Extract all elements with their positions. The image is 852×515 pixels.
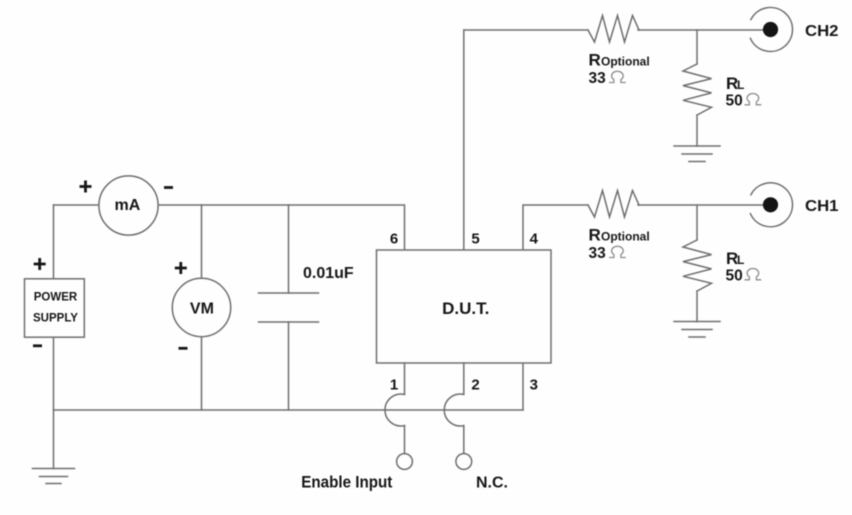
svg-text:33: 33 [589, 245, 607, 262]
svg-text:Optional: Optional [601, 229, 650, 243]
ohm symbol for 50 ohm CH2 [745, 94, 762, 105]
ohm symbol for 50 ohm CH1 [745, 269, 762, 280]
minus sign: power supply [33, 344, 42, 347]
wire: VM branch vertical (top wire to VM, VM to bottom wire) [201, 205, 203, 410]
svg-text:33: 33 [589, 70, 607, 87]
svg-text:Optional: Optional [601, 54, 650, 68]
svg-text:2: 2 [471, 376, 479, 393]
svg-text:3: 3 [530, 376, 538, 393]
svg-text:N.C.: N.C. [476, 475, 508, 492]
wire: mA right to pin6 corner, down to DUT pin 6 [158, 205, 405, 250]
wire: pin1 hop to enable input terminal [404, 426, 406, 454]
svg-text:Enable Input: Enable Input [301, 474, 392, 492]
terminal circle: N.C. [456, 454, 472, 470]
resistor RL CH1 (50 ohm) vertical zigzag [683, 240, 712, 291]
wire: capacitor branch vertical [288, 205, 290, 410]
svg-text:5: 5 [471, 231, 479, 248]
ohm symbol for 33 ohm CH2 [609, 71, 626, 82]
plus sign: power supply [34, 258, 46, 270]
svg-text:4: 4 [530, 231, 539, 248]
wire: left rail (top wire down to power supply, power supply to ground) [53, 205, 55, 469]
svg-text:6: 6 [390, 231, 398, 248]
svg-text:L: L [737, 78, 744, 92]
voltmeter VM circle [172, 278, 230, 336]
D.U.T. box [377, 250, 552, 363]
wire: pin2 hop to N.C. terminal [463, 426, 465, 454]
svg-text:R: R [589, 225, 601, 244]
ground symbol: RL CH2 [674, 146, 720, 162]
wire: pin1 down from DUT to hop [404, 363, 406, 394]
plus sign: VM [175, 262, 187, 274]
wire: pin4 vertical and CH1 line to R optional [523, 205, 588, 250]
wire: CH2 top line, pin5 corner to R optional [464, 29, 588, 31]
svg-text:SUPPLY: SUPPLY [33, 313, 78, 325]
minus sign: mA right [164, 186, 173, 189]
wire: pin3 vertical up from ground bus to DUT [522, 363, 524, 410]
wire: bottom ground bus [54, 409, 524, 411]
wire hop: pin2 over ground bus [444, 394, 464, 426]
ground symbol: RL CH1 [674, 322, 720, 338]
wire: RL CH1 to ground [696, 291, 698, 322]
wire: CH2 line from resistor to BNC [638, 29, 763, 31]
wire hop: pin1 over ground bus [385, 394, 405, 426]
wire: RL CH2 to ground [696, 115, 698, 146]
wire: CH1 line from resistor to BNC [638, 204, 763, 206]
svg-text:mA: mA [115, 197, 141, 214]
wire: CH1 junction drop to RL [696, 205, 698, 240]
svg-text:D.U.T.: D.U.T. [442, 299, 489, 318]
svg-text:1: 1 [390, 376, 398, 393]
ammeter mA circle [99, 176, 158, 235]
svg-text:CH2: CH2 [805, 23, 839, 40]
svg-text:VM: VM [190, 301, 214, 318]
BNC CH1 center pin [763, 197, 778, 212]
wire: pin2 down from DUT to hop [463, 363, 465, 394]
resistor RL CH2 (50 ohm) vertical zigzag [683, 64, 712, 115]
svg-text:POWER: POWER [34, 292, 78, 304]
svg-text:R: R [589, 50, 601, 69]
resistor R optional CH2 (33 ohm) zigzag [588, 16, 639, 43]
power supply box [25, 279, 85, 337]
wire: CH2 junction drop to RL [696, 30, 698, 64]
terminal circle: Enable Input [397, 454, 413, 470]
BNC connector CH1 outer arc [750, 183, 792, 227]
ohm symbol for 33 ohm CH1 [609, 246, 626, 257]
wire: pin5 vertical from DUT up to CH2 line [463, 30, 465, 250]
BNC connector CH2 outer arc [750, 7, 792, 51]
svg-text:50: 50 [726, 267, 743, 284]
resistor R optional CH1 (33 ohm) zigzag [588, 191, 639, 218]
plus sign: mA left [80, 181, 92, 193]
capacitor C1 0.01uF plates [259, 293, 319, 322]
minus sign: VM [179, 347, 188, 350]
svg-text:L: L [737, 253, 744, 267]
svg-text:CH1: CH1 [805, 198, 839, 215]
BNC CH2 center pin [763, 22, 778, 37]
wire: top-left horizontal from left rail to mA meter [54, 204, 100, 206]
svg-text:50: 50 [726, 92, 743, 109]
ground symbol: left rail [33, 469, 75, 484]
svg-text:0.01uF: 0.01uF [303, 265, 354, 282]
